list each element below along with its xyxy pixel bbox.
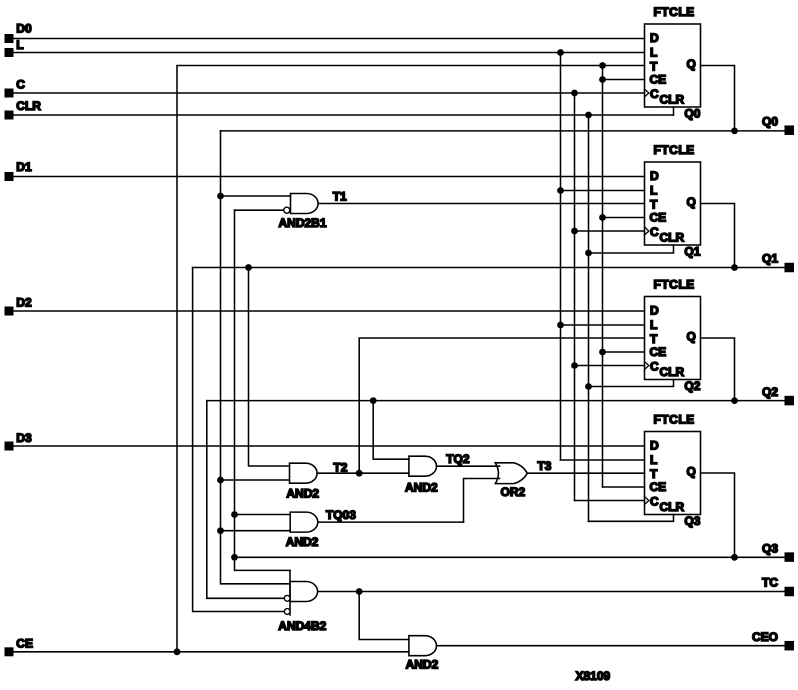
wire C net — [14, 92, 645, 94]
svg-text:L: L — [650, 184, 657, 198]
node L tap U3 — [557, 322, 564, 329]
node CE tap U3 — [599, 349, 606, 356]
bubble AND2B1 inverted input — [284, 207, 290, 213]
svg-text:FTCLE: FTCLE — [654, 278, 695, 292]
wire CE distribution column — [602, 66, 604, 488]
and-gate AND2B1 (T1 = Q0 and not Q3) — [279, 194, 327, 231]
node T2 tap to U3 T — [356, 470, 363, 477]
svg-text:D2: D2 — [16, 296, 32, 310]
svg-text:T: T — [650, 332, 658, 346]
svg-text:Q1: Q1 — [684, 245, 700, 259]
svg-text:D3: D3 — [16, 431, 32, 445]
output terminal Q3 — [762, 541, 794, 562]
and-gate AND2 (TQ03 = Q3 and Q0) — [286, 512, 319, 549]
wire OR2 input 2 from TQ03 — [464, 479, 500, 523]
node CLR column tap U3 — [585, 383, 592, 390]
output terminal Q1 — [762, 252, 794, 273]
svg-text:AND2: AND2 — [405, 481, 438, 495]
bubble AND4B2 inverted input 3 — [284, 595, 290, 601]
svg-text:X8109: X8109 — [576, 669, 611, 683]
svg-text:L: L — [650, 453, 657, 467]
node L tap at L net — [557, 49, 564, 56]
node C tap U3 — [571, 362, 578, 369]
wire AND2B1 input 2 from Q3 column — [235, 209, 285, 211]
svg-text:TC: TC — [762, 576, 778, 590]
wire CE net — [14, 651, 409, 653]
flip-flop U1 FTCLE (bit Q0) — [645, 5, 701, 107]
wire Q0 feedback column — [221, 131, 291, 584]
clock wedge U4 C pin — [645, 497, 649, 505]
wire TC output to terminal — [318, 591, 784, 593]
wire U4 Q output to Q3 net — [701, 473, 735, 557]
wire CEO output to terminal — [437, 645, 785, 647]
svg-text:CEO: CEO — [752, 630, 778, 644]
and-gate AND2 (TQ2 = Q2 and T2) — [405, 456, 438, 494]
wire AND2B1 input 1 from Q0 column — [221, 195, 291, 197]
node Q0 tap TQ03 — [217, 527, 224, 534]
wire C to U2 — [575, 230, 645, 232]
wire D2 net — [14, 310, 645, 312]
wire CE to U4 — [603, 486, 645, 488]
svg-text:CE: CE — [650, 345, 667, 359]
node Q0 junction at output — [731, 127, 738, 134]
svg-text:CLR: CLR — [660, 500, 685, 514]
input terminal CLR — [5, 99, 42, 120]
svg-text:D: D — [650, 304, 659, 318]
wire L net — [14, 52, 645, 54]
wire L to U3 — [561, 324, 645, 326]
svg-text:C: C — [650, 495, 659, 509]
svg-text:AND2B1: AND2B1 — [279, 216, 327, 230]
input terminal CE — [5, 636, 33, 656]
wire L to U4 — [561, 459, 645, 461]
node CLR column tap U2 — [585, 250, 592, 257]
output terminal TC — [762, 576, 794, 597]
wire U1 CLR from CLR net — [673, 107, 675, 115]
node Q3 junction at output — [731, 554, 738, 561]
node Q1 junction at output — [731, 264, 738, 271]
svg-text:D: D — [650, 169, 659, 183]
svg-text:Q: Q — [687, 195, 696, 209]
node Q0 tap AND2B1 — [217, 193, 224, 200]
wire AND2 T2 input 2 from Q0 column — [221, 479, 290, 481]
wire D3 net — [14, 445, 645, 447]
node CE column top at T wire — [599, 62, 606, 69]
wire T2 output to TQ2 gate — [317, 472, 409, 474]
svg-text:Q2: Q2 — [762, 385, 778, 399]
node Q2 junction at output — [731, 397, 738, 404]
wire CLR distribution column — [588, 115, 590, 521]
wire TQ03 input 1 from Q3 column — [235, 514, 291, 516]
wire D1 net — [14, 176, 645, 178]
wire T3 output to U4 T pin — [527, 472, 644, 474]
node CE tap U2 — [599, 214, 606, 221]
flip-flop U4 FTCLE (bit Q3) — [645, 413, 701, 515]
svg-text:AND4B2: AND4B2 — [278, 619, 326, 633]
wire D0 net — [14, 38, 645, 40]
wire CE to U3 — [603, 351, 645, 353]
svg-text:CLR: CLR — [660, 93, 685, 107]
svg-text:L: L — [16, 38, 23, 52]
clock wedge U1 C pin — [645, 89, 649, 97]
clock wedge U2 C pin — [645, 227, 649, 235]
svg-text:T1: T1 — [333, 189, 347, 203]
wire Q3 feedback column — [235, 210, 291, 570]
output terminal Q2 — [762, 385, 794, 406]
wire CE to U2 — [603, 217, 645, 219]
output terminal CEO — [752, 630, 794, 651]
node CE tap U1 — [599, 76, 606, 83]
svg-text:T: T — [650, 467, 658, 481]
and-gate AND2 (CEO = TC and CE) — [406, 636, 439, 672]
svg-text:Q2: Q2 — [684, 379, 700, 393]
svg-text:Q1: Q1 — [762, 252, 778, 266]
clock wedge U3 C pin — [645, 362, 649, 370]
flip-flop U3 FTCLE (bit Q2) — [645, 278, 701, 380]
svg-text:D0: D0 — [16, 22, 32, 36]
wire TQ2 output to OR2 — [437, 465, 500, 467]
wire L to U2 — [561, 190, 645, 192]
svg-text:TQ03: TQ03 — [326, 508, 356, 522]
wire U4 CLR from CLR column — [589, 515, 674, 522]
bubble AND4B2 inverted input 4 — [284, 609, 290, 615]
wire T2 to U3 T pin — [359, 338, 644, 473]
output terminal Q0 — [762, 114, 794, 135]
node TC tap to CEO gate — [356, 588, 363, 595]
wire Q1 feedback column — [193, 268, 285, 612]
or-gate OR2 (T3 = TQ2 or TQ03) — [495, 463, 527, 499]
wire C to U3 — [575, 365, 645, 367]
svg-text:Q0: Q0 — [684, 107, 700, 121]
wire T1 output to U2 T pin — [318, 203, 644, 205]
wire CE to U1 — [603, 79, 645, 81]
wire TQ2 input 1 from Q2 tap — [373, 401, 409, 460]
wire Q0 net — [221, 130, 785, 132]
wire TQ03 input 2 from Q0 column — [221, 530, 291, 532]
svg-text:C: C — [650, 360, 659, 374]
svg-text:FTCLE: FTCLE — [654, 413, 695, 427]
node Q2 tap junction — [370, 397, 377, 404]
input terminal D1 — [5, 160, 32, 181]
svg-text:TQ2: TQ2 — [446, 452, 470, 466]
wire U3 Q output to Q2 net — [701, 338, 735, 401]
svg-text:CLR: CLR — [660, 365, 685, 379]
svg-text:OR2: OR2 — [501, 485, 526, 499]
node CE net tap — [174, 648, 181, 655]
wire Q1 tap column to T2 gate — [249, 268, 290, 467]
wire CE feedback column (CE input to U1 T) — [177, 66, 645, 652]
wire TQ03 output — [318, 521, 464, 523]
svg-text:D1: D1 — [16, 160, 32, 174]
node CLR tap at CLR net — [585, 112, 592, 119]
svg-text:C: C — [650, 87, 659, 101]
wire Q1 net — [193, 267, 785, 269]
wire CEO gate input 1 from TC — [359, 592, 409, 640]
wire U2 Q output to Q1 net — [701, 204, 735, 268]
node C tap U2 — [571, 228, 578, 235]
svg-text:Q3: Q3 — [684, 514, 700, 528]
node Q3 tap TQ03 — [231, 511, 238, 518]
svg-text:Q: Q — [687, 57, 696, 71]
svg-text:Q0: Q0 — [762, 114, 778, 128]
svg-text:C: C — [650, 225, 659, 239]
wire U1 Q output to Q0 net — [701, 66, 735, 131]
and-gate AND2 (T2 = Q1 and Q0) — [286, 463, 319, 500]
wire L distribution column — [560, 53, 562, 461]
wire C distribution column — [574, 93, 576, 501]
svg-text:L: L — [650, 318, 657, 332]
input terminal D3 — [5, 431, 32, 451]
svg-text:FTCLE: FTCLE — [654, 5, 695, 19]
svg-text:C: C — [16, 78, 25, 92]
svg-text:CE: CE — [650, 73, 667, 87]
wire Q3 net — [235, 556, 785, 558]
node Q3 net end junction — [231, 554, 238, 561]
wire Q2 net — [207, 400, 785, 402]
svg-text:T3: T3 — [537, 459, 551, 473]
wire Q2 feedback column — [207, 401, 284, 599]
svg-text:Q: Q — [687, 330, 696, 344]
svg-text:Q3: Q3 — [762, 541, 778, 555]
svg-text:T: T — [650, 198, 658, 212]
svg-text:D: D — [650, 439, 659, 453]
svg-text:CE: CE — [16, 636, 33, 650]
input terminal D0 — [5, 22, 32, 43]
input terminal C — [5, 78, 26, 98]
node C tap at C net — [571, 90, 578, 97]
svg-text:AND2: AND2 — [406, 658, 439, 672]
input terminal D2 — [5, 296, 32, 316]
node Q0 tap T2 — [217, 477, 224, 484]
wire C to U4 — [575, 500, 645, 502]
flip-flop U2 FTCLE (bit Q1) — [645, 143, 701, 245]
svg-text:L: L — [650, 46, 657, 60]
svg-text:AND2: AND2 — [286, 486, 319, 500]
svg-text:CE: CE — [650, 480, 667, 494]
node L tap U2 — [557, 187, 564, 194]
input terminal L — [5, 38, 24, 57]
svg-text:CE: CE — [650, 211, 667, 225]
svg-text:T: T — [650, 60, 658, 74]
node Q1 tap junction — [245, 264, 252, 271]
svg-text:T2: T2 — [333, 460, 347, 474]
svg-text:FTCLE: FTCLE — [654, 143, 695, 157]
wire U3 CLR from CLR column — [589, 380, 674, 387]
svg-text:D: D — [650, 31, 659, 45]
wire U2 CLR from CLR column — [589, 245, 674, 253]
svg-text:CLR: CLR — [16, 99, 41, 113]
and-gate AND4B2 (TC = Q3 and Q0 and not Q2 and not Q1) — [278, 570, 326, 633]
svg-text:Q: Q — [687, 465, 696, 479]
svg-text:AND2: AND2 — [286, 535, 319, 549]
wire CLR net — [14, 114, 674, 116]
svg-text:CLR: CLR — [660, 231, 685, 245]
